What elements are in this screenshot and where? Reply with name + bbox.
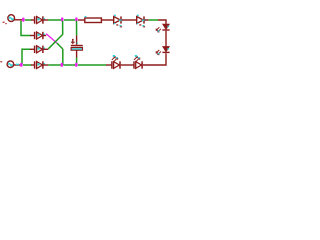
resistor R1 (box style) [85, 16, 102, 23]
wire: D2 cathode pin [43, 35, 46, 37]
capacitor C1 (polarized) [71, 21, 83, 65]
node dot E [60, 63, 63, 67]
wire: dot D to D6 [23, 64, 32, 66]
diode D2 (middle-left upper) [35, 32, 46, 39]
wire: green diagonal riser to D3 cathode [48, 34, 62, 48]
wire: corner into right column [158, 20, 166, 25]
wire: green arm apex to riser bottom [57, 43, 63, 49]
wire: between right LEDs [165, 31, 167, 47]
wire: green segment top right [149, 19, 159, 21]
node dot C [75, 17, 78, 21]
diode D5 [137, 15, 146, 24]
diode D4 [114, 15, 123, 24]
label text under D5 [139, 24, 141, 26]
wire: D1 to node B [48, 19, 61, 21]
wire: dot A to D1 [25, 19, 32, 21]
node dot A [22, 18, 25, 22]
wire: D9 to D10 [121, 64, 135, 66]
wire: D3 cathode pin [43, 48, 48, 50]
wire: D10 to bottom-right corner [143, 64, 160, 66]
wire: D1 cathode pin [43, 19, 48, 21]
wire: node C to R1 [78, 19, 85, 21]
wire: magenta diagonal D2 cathode to apex [46, 34, 57, 43]
LED D9 (bottom row, pointing right, outline) [112, 55, 120, 69]
wire: D5 cathode pin [145, 19, 149, 21]
node dot F [75, 63, 78, 67]
wire: R1 to D4 [102, 19, 114, 21]
wire: riser upper section from node B [62, 21, 64, 35]
LED D10 (bottom row, pointing right, outline) [134, 55, 142, 69]
LED D8 (right column lower, pointing down, filled) [156, 47, 169, 55]
wire: bottom green run [48, 64, 60, 66]
wire: D6 cathode pin [43, 64, 48, 66]
wire: dot E to dot F [63, 64, 75, 66]
wire: D4 to D5 [122, 19, 137, 21]
diode D3 (middle-left lower) [35, 46, 46, 53]
label text under D4 [116, 24, 118, 26]
wire: riser from bottom wire up to D3 [22, 49, 31, 64]
wire: node B to node C [64, 19, 75, 21]
node dot D [20, 63, 23, 67]
wire: riser lower section to bottom wire [62, 49, 64, 65]
diode D6 (bottom row) [35, 61, 46, 68]
wire: dot F toward LED D9 [78, 64, 106, 66]
wire: riser from top wire down to D2 [21, 21, 31, 36]
AC source V1 top terminal (circle icon) [3, 15, 22, 25]
LED D7 (right column upper, pointing down, filled) [156, 24, 169, 32]
diode D1 (top row) [35, 16, 46, 23]
node dot B [61, 17, 64, 21]
wire: right column to bottom-right corner [160, 53, 166, 65]
AC source V1 bottom terminal (circle icon) [0, 61, 20, 68]
